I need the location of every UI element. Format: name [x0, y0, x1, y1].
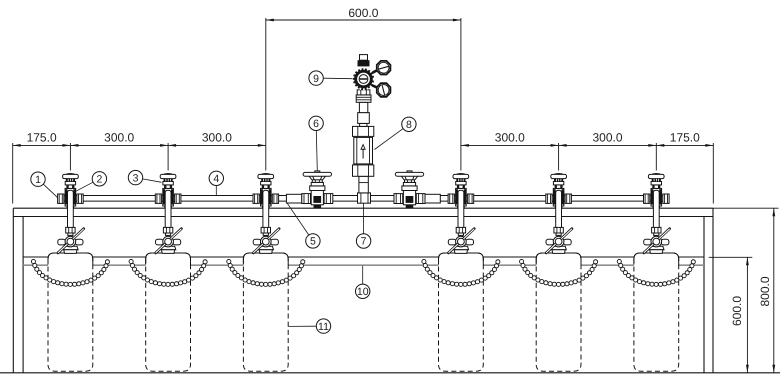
pressure gauge lower — [377, 83, 391, 97]
dimension 600.0 (top) — [266, 19, 461, 21]
dimension 600.0 (vertical) — [746, 257, 748, 373]
safety chain 4 — [422, 259, 426, 263]
extension line left edge — [12, 143, 14, 204]
extension line station 1 — [69, 143, 71, 171]
cylinder valve 6 — [652, 227, 661, 233]
svg-text:8: 8 — [406, 119, 412, 131]
balloon 10 with leader — [362, 266, 364, 284]
svg-text:175.0: 175.0 — [670, 131, 700, 145]
manifold valve station 2 — [155, 194, 161, 203]
svg-text:11: 11 — [318, 321, 329, 333]
safety chain 1 — [31, 259, 35, 263]
balloon 3 with leader — [143, 179, 162, 182]
gas cylinder 5 (dashed) — [536, 253, 581, 371]
reducer sleeve right — [425, 194, 440, 203]
svg-text:300.0: 300.0 — [495, 131, 525, 145]
cylinder valve 3 — [261, 227, 270, 233]
cylinder valve 2 — [163, 227, 172, 233]
frame top rail — [13, 207, 713, 209]
dimension 300.0 left-a — [70, 144, 168, 146]
extension line station 4 — [460, 18, 462, 171]
extension line station 5 — [558, 143, 560, 171]
cylinder valve 1 — [66, 227, 75, 233]
balloon 4 with leader — [215, 186, 217, 196]
cylinder valve 4 — [456, 227, 465, 233]
balloon 7 with leader — [363, 203, 365, 233]
svg-text:9: 9 — [313, 73, 319, 85]
extension line for 600 vertical — [709, 256, 753, 258]
dimension 175.0 left — [13, 144, 71, 146]
balloon 2 with leader — [76, 182, 93, 191]
balloon 5 with leader — [287, 203, 309, 235]
half-bank shutoff valve (item 6) — [302, 194, 311, 204]
dimension 300.0 right-a — [461, 144, 559, 146]
safety chain 3 — [227, 259, 231, 263]
svg-text:2: 2 — [96, 174, 102, 186]
extension line station 2 — [167, 143, 169, 171]
manifold pipe — [58, 195, 669, 197]
svg-text:300.0: 300.0 — [104, 131, 134, 145]
extension line station 6 — [655, 143, 657, 171]
svg-text:1: 1 — [35, 174, 41, 186]
dimension 300.0 left-b — [168, 144, 266, 146]
pressure gauge upper — [377, 61, 391, 75]
safety chain 5 — [520, 259, 524, 263]
svg-text:10: 10 — [357, 286, 369, 298]
frame right post — [712, 208, 714, 373]
pressure regulator (item 9) — [360, 55, 368, 61]
balloon 6 with leader — [316, 131, 317, 172]
gas cylinder 6 (dashed) — [634, 253, 679, 371]
svg-text:7: 7 — [361, 236, 367, 248]
frame left post — [12, 208, 14, 373]
manifold valve station 3 — [253, 194, 259, 203]
gas cylinder 2 (dashed) — [146, 253, 191, 371]
reducer sleeve left (item 5) — [286, 194, 301, 203]
safety chain 2 — [129, 259, 133, 263]
safety chain 6 — [617, 259, 621, 263]
cylinder chain rail (gray) — [23, 264, 704, 266]
extension line for 800 vertical — [713, 207, 779, 209]
manifold valve station 5 — [546, 194, 552, 203]
regulator lower fittings — [360, 123, 367, 126]
cylinder back rail — [23, 256, 704, 258]
cylinder valve 5 — [554, 227, 563, 233]
svg-text:300.0: 300.0 — [592, 131, 622, 145]
svg-text:5: 5 — [310, 236, 316, 248]
gas cylinder 4 (dashed) — [439, 253, 484, 371]
gas cylinder 3 (dashed) — [243, 253, 288, 371]
dimension 800.0 (vertical) — [773, 208, 775, 373]
balloon 1 with leader — [43, 184, 58, 198]
balloon 9 with leader — [323, 77, 352, 80]
pipe tee-to-filter — [359, 176, 368, 193]
ground line — [0, 372, 780, 374]
extension line station 3 — [265, 18, 267, 171]
extension line right edge — [712, 143, 714, 204]
svg-text:300.0: 300.0 — [202, 131, 232, 145]
manifold valve station 6 — [644, 194, 650, 203]
inline filter (item 8) — [353, 165, 374, 176]
manifold valve station 4 — [448, 194, 454, 203]
svg-text:175.0: 175.0 — [27, 131, 57, 145]
manifold tee (item 7) — [358, 193, 371, 203]
half-bank shutoff valve right — [394, 194, 403, 204]
dimension 300.0 right-b — [559, 144, 657, 146]
dimension 175.0 right — [656, 144, 713, 146]
gas cylinder 1 (dashed) — [48, 253, 93, 371]
svg-text:4: 4 — [213, 173, 219, 185]
svg-text:600.0: 600.0 — [730, 296, 744, 326]
svg-text:800.0: 800.0 — [758, 276, 772, 306]
svg-text:6: 6 — [313, 118, 319, 130]
balloon 8 with leader — [375, 129, 404, 150]
svg-text:600.0: 600.0 — [348, 6, 378, 20]
svg-text:3: 3 — [133, 172, 139, 184]
manifold valve station 1 — [58, 194, 64, 203]
balloon 11 with leader — [288, 325, 316, 327]
